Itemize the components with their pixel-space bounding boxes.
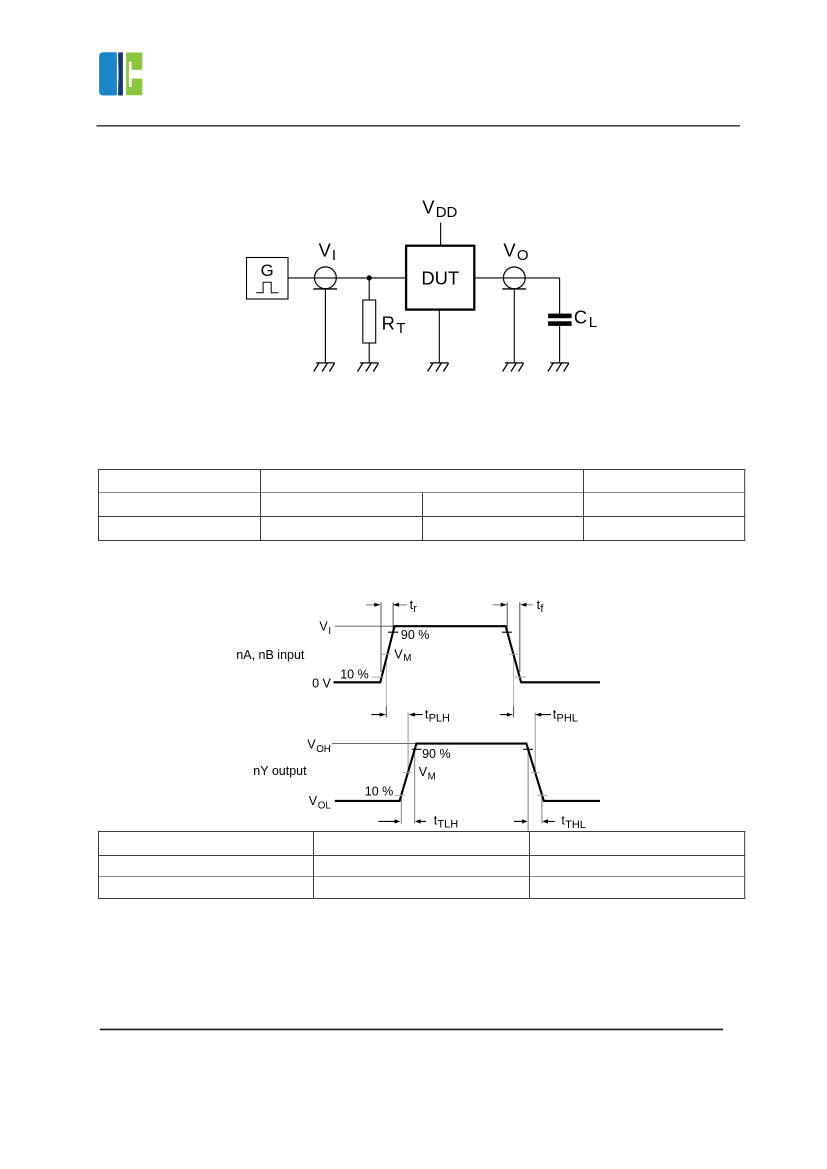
svg-text:V: V (422, 196, 435, 217)
svg-text:R: R (382, 313, 395, 334)
svg-text:V: V (309, 794, 318, 808)
svg-text:OH: OH (316, 744, 331, 755)
svg-text:TLH: TLH (437, 819, 458, 831)
svg-text:10 %: 10 % (365, 785, 394, 799)
svg-text:10 %: 10 % (340, 667, 369, 681)
svg-text:90 %: 90 % (422, 747, 451, 761)
svg-text:C: C (574, 306, 587, 327)
svg-text:V: V (307, 738, 316, 752)
svg-text:nA, nB input: nA, nB input (236, 648, 305, 662)
svg-text:90 %: 90 % (401, 628, 430, 642)
svg-text:V: V (503, 240, 516, 261)
svg-text:PHL: PHL (557, 713, 578, 725)
svg-text:I: I (328, 626, 331, 637)
svg-text:V: V (419, 765, 428, 779)
svg-text:PLH: PLH (429, 713, 450, 725)
svg-text:G: G (261, 261, 274, 280)
svg-text:f: f (540, 603, 543, 615)
svg-text:I: I (332, 247, 336, 264)
svg-text:r: r (413, 603, 417, 615)
svg-text:O: O (517, 247, 529, 264)
svg-text:DD: DD (436, 204, 458, 221)
svg-text:V: V (319, 240, 332, 261)
svg-text:L: L (589, 314, 597, 331)
svg-text:M: M (403, 653, 411, 664)
svg-text:DUT: DUT (421, 268, 459, 289)
svg-text:0 V: 0 V (312, 677, 331, 691)
svg-text:THL: THL (565, 819, 586, 831)
svg-text:T: T (396, 320, 405, 337)
svg-text:V: V (319, 620, 328, 634)
svg-text:V: V (394, 647, 403, 661)
svg-text:M: M (428, 772, 436, 783)
svg-text:OL: OL (318, 800, 332, 811)
svg-text:nY output: nY output (253, 764, 307, 778)
